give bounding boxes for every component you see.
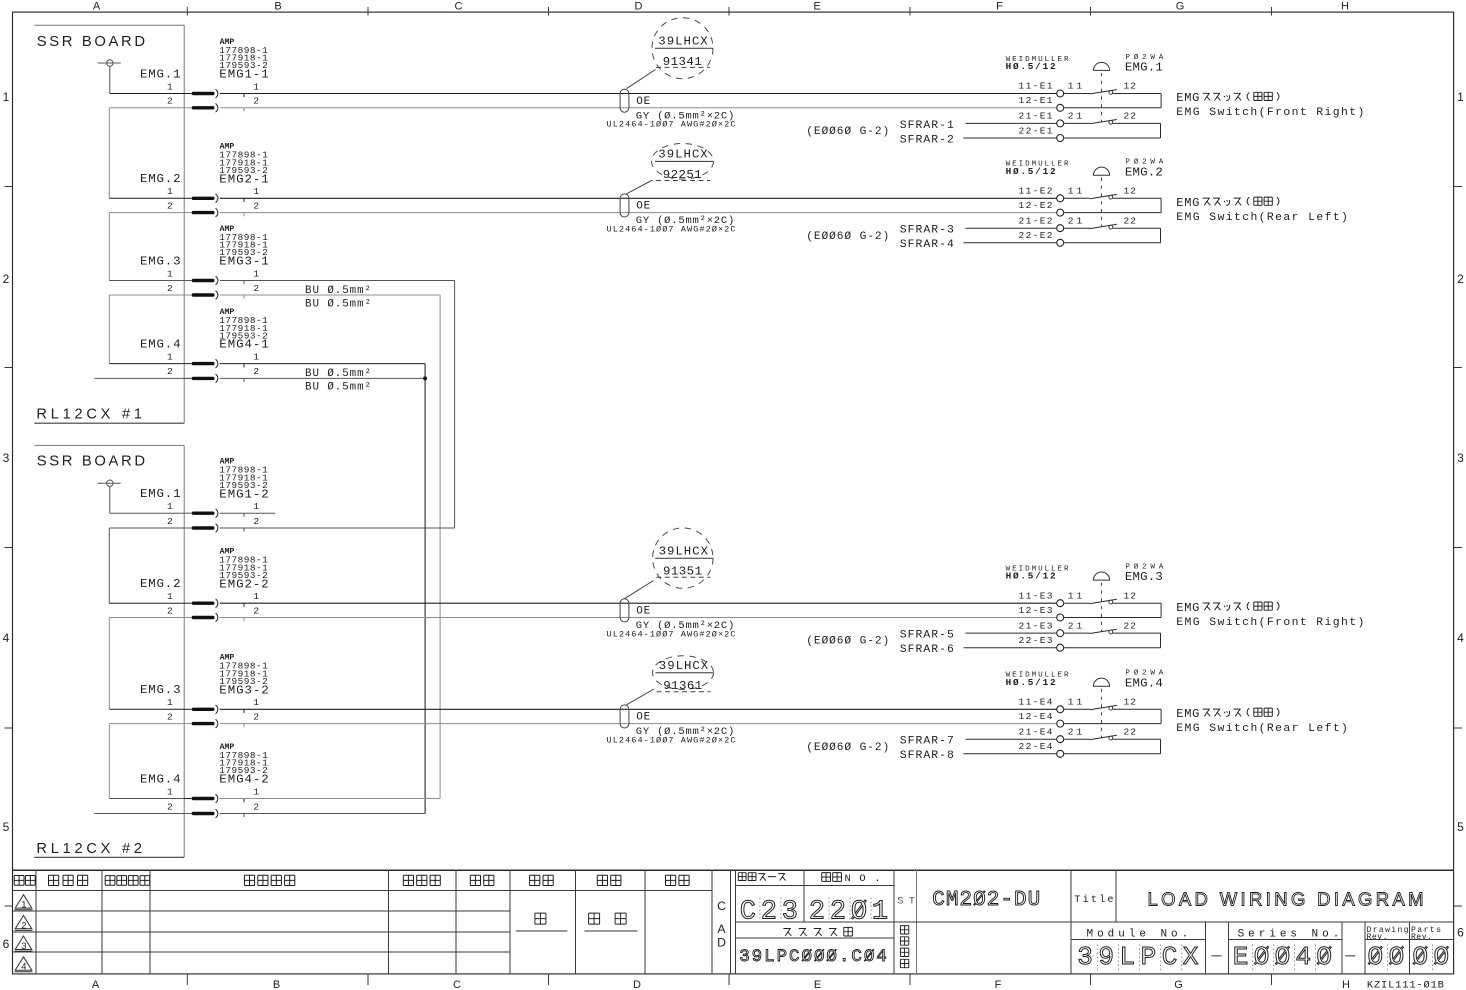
cable marker OE cable 39LHCX-91351 — [607, 599, 736, 640]
svg-text:12-E2: 12-E2 — [1019, 200, 1053, 211]
svg-text:BU Ø.5mm²: BU Ø.5mm² — [305, 298, 371, 310]
svg-text:6: 6 — [1457, 926, 1464, 940]
SSR BOARD #1 outline (RL12CX #1) — [34, 25, 184, 423]
svg-text:C: C — [455, 1, 463, 13]
svg-text:SFRAR-8: SFRAR-8 — [900, 750, 954, 762]
svg-text:F: F — [996, 1, 1003, 13]
svg-text:D: D — [635, 1, 643, 13]
connector EMG3-1 (AMP 177898-1/177918-1/179593-2) — [167, 225, 269, 300]
svg-text:2: 2 — [253, 801, 259, 812]
wire EMG1-2 pin2 to vertical bus — [220, 527, 455, 529]
net labels SFRAR-3/SFRAR-4 with (E0060 G-2) reference — [806, 225, 954, 252]
balloon cable id 39LHCX 91341 — [627, 18, 714, 89]
board EMG position labels — [140, 67, 181, 786]
svg-text:2: 2 — [167, 200, 173, 211]
svg-text:LOAD WIRING DIAGRAM: LOAD WIRING DIAGRAM — [1148, 888, 1424, 909]
wire EMG1-2 pin1 stub — [220, 512, 275, 514]
svg-text:1: 1 — [21, 900, 26, 911]
cable marker OE cable 39LHCX-91341 — [607, 89, 736, 130]
svg-text:21-E1: 21-E1 — [1019, 111, 1053, 122]
switch EMG.1 description labels — [1176, 91, 1364, 119]
svg-text:SFRAR-4: SFRAR-4 — [900, 239, 954, 251]
svg-text:11-E2: 11-E2 — [1019, 186, 1053, 197]
svg-text:39LHCX: 39LHCX — [659, 545, 709, 559]
CAD vertical label — [717, 899, 726, 950]
svg-text:4: 4 — [21, 962, 26, 973]
svg-text:Rev.: Rev. — [1367, 933, 1388, 942]
wire EMG1-1 pin1 to terminal 11-E1 — [220, 93, 1057, 95]
grid column letters bottom — [92, 979, 1350, 990]
svg-text:SFRAR-7: SFRAR-7 — [900, 736, 954, 748]
svg-text:OE: OE — [636, 201, 650, 213]
svg-text:2: 2 — [809, 897, 825, 927]
department code C23 / control no 2201 — [740, 897, 888, 927]
svg-text:BU Ø.5mm²: BU Ø.5mm² — [305, 285, 371, 297]
wire EMG4-2 pin1 to vertical bus — [220, 798, 440, 800]
svg-text:22: 22 — [1124, 620, 1137, 631]
balloon cable id 39LHCX 91351 — [625, 528, 714, 599]
svg-text:5: 5 — [3, 820, 10, 834]
svg-text:1: 1 — [253, 697, 259, 708]
net labels SFRAR-5/SFRAR-6 with (E0060 G-2) reference — [806, 630, 954, 657]
svg-text:21-E3: 21-E3 — [1019, 620, 1053, 631]
svg-text:H: H — [1341, 1, 1349, 13]
svg-text:A: A — [93, 1, 101, 13]
svg-text:EMG.3: EMG.3 — [1125, 570, 1163, 584]
svg-text:22: 22 — [1124, 726, 1137, 737]
svg-text:UL2464-1ØØ7 AWG#2Ø×2C: UL2464-1ØØ7 AWG#2Ø×2C — [607, 120, 736, 130]
wire EMG3-1 pin2 down to EMG4-2 pin1 (BU 0.5mm2) — [220, 295, 440, 799]
svg-text:3: 3 — [1457, 451, 1464, 465]
svg-text:1: 1 — [167, 501, 173, 512]
svg-text:2: 2 — [167, 801, 173, 812]
svg-text:2: 2 — [253, 283, 259, 294]
svg-text:12: 12 — [1124, 590, 1137, 601]
svg-text:Ø: Ø — [1368, 942, 1384, 972]
svg-text:(EØØ6Ø G-2): (EØØ6Ø G-2) — [806, 742, 889, 754]
svg-text:2: 2 — [21, 920, 26, 931]
svg-text:3: 3 — [21, 941, 26, 952]
revision table headers (fugo/nengappi/kaitei...) — [14, 875, 689, 885]
svg-text:1: 1 — [167, 591, 173, 602]
emergency stop switch EMG.1 (P02WA) terminals E1 — [964, 53, 1164, 142]
svg-text:EMG.4: EMG.4 — [140, 337, 181, 351]
svg-text:2: 2 — [253, 200, 259, 211]
svg-text:2: 2 — [167, 711, 173, 722]
svg-text:L: L — [1120, 942, 1136, 972]
pushbutton common symbol board #2 — [98, 480, 121, 513]
svg-text:(EØØ6Ø G-2): (EØØ6Ø G-2) — [806, 231, 889, 243]
svg-text:1: 1 — [253, 786, 259, 797]
switch EMG.4 description labels — [1176, 707, 1348, 735]
parts rev 00 — [1412, 942, 1449, 972]
svg-text:E: E — [813, 1, 820, 13]
svg-text:2: 2 — [167, 283, 173, 294]
emergency stop switch EMG.3 (P02WA) terminals E3 — [964, 563, 1164, 652]
svg-text:1: 1 — [167, 186, 173, 197]
svg-text:91341: 91341 — [663, 55, 702, 69]
svg-text:21-E4: 21-E4 — [1019, 726, 1053, 737]
svg-text:1: 1 — [253, 186, 259, 197]
svg-text:11-E4: 11-E4 — [1019, 697, 1053, 708]
svg-text:SSR BOARD: SSR BOARD — [37, 34, 145, 50]
svg-text:11-E3: 11-E3 — [1019, 590, 1053, 601]
svg-text:2: 2 — [167, 516, 173, 527]
svg-text:B: B — [273, 979, 280, 990]
svg-text:SSR BOARD: SSR BOARD — [37, 454, 145, 470]
svg-text:2: 2 — [253, 366, 259, 377]
balloon cable id 39LHCX 91361 — [627, 656, 714, 705]
svg-text:OE: OE — [636, 712, 650, 724]
svg-text:2: 2 — [167, 605, 173, 616]
net labels SFRAR-7/SFRAR-8 with (E0060 G-2) reference — [806, 736, 954, 763]
svg-text:X: X — [1183, 942, 1199, 972]
svg-text:EMG.1: EMG.1 — [1125, 61, 1163, 75]
svg-text:3: 3 — [1077, 942, 1093, 972]
grid row numbers right — [1457, 90, 1464, 940]
svg-text:EMG: EMG — [1176, 707, 1199, 721]
svg-text:UL2464-1ØØ7 AWG#2Ø×2C: UL2464-1ØØ7 AWG#2Ø×2C — [607, 224, 736, 234]
svg-text:H: H — [1342, 979, 1350, 990]
svg-text:EMG4-2: EMG4-2 — [219, 773, 268, 787]
svg-text:4: 4 — [3, 631, 10, 645]
svg-text:1: 1 — [167, 351, 173, 362]
svg-text:EMG1-1: EMG1-1 — [219, 68, 268, 82]
svg-text:1: 1 — [167, 786, 173, 797]
svg-text:EMG: EMG — [1176, 196, 1199, 210]
svg-text:22-E4: 22-E4 — [1019, 741, 1053, 752]
svg-text:EMG Switch(Rear Left): EMG Switch(Rear Left) — [1176, 212, 1348, 224]
svg-text:91351: 91351 — [663, 565, 702, 579]
emergency stop switch EMG.4 (P02WA) terminals E4 — [964, 669, 1164, 758]
svg-text:(EØØ6Ø G-2): (EØØ6Ø G-2) — [806, 636, 889, 648]
svg-text:22-E1: 22-E1 — [1019, 125, 1053, 136]
connector EMG3-2 (AMP 177898-1/177918-1/179593-2) — [167, 654, 269, 728]
wire size labels BU 0.5mm2 (EMG3-1) — [305, 285, 371, 310]
svg-text:BU Ø.5mm²: BU Ø.5mm² — [305, 368, 371, 380]
svg-text:39LHCX: 39LHCX — [658, 148, 708, 162]
svg-text:EMG.2: EMG.2 — [140, 172, 181, 186]
svg-text:SFRAR-1: SFRAR-1 — [900, 120, 954, 132]
module number 39LPCX — [1077, 942, 1221, 972]
svg-text:1: 1 — [253, 81, 259, 92]
svg-text:SFRAR-6: SFRAR-6 — [900, 644, 954, 656]
switch EMG.3 description labels — [1176, 601, 1364, 629]
svg-text:1: 1 — [167, 268, 173, 279]
wire EMG3-2 pin1 to terminal 11-E4 — [220, 708, 1057, 710]
svg-text:2: 2 — [3, 272, 10, 286]
svg-text:E: E — [1233, 942, 1249, 972]
svg-text:22: 22 — [1124, 215, 1137, 226]
svg-text:C: C — [717, 899, 726, 913]
designer name Tsutsumi — [516, 913, 568, 931]
svg-text:EMG.2: EMG.2 — [1125, 165, 1163, 179]
svg-text:D: D — [717, 936, 726, 950]
svg-text:2: 2 — [253, 516, 259, 527]
svg-text:Ø: Ø — [1389, 942, 1405, 972]
revision triangles 1-4 — [15, 895, 33, 973]
svg-text:G: G — [1174, 979, 1183, 990]
connector EMG4-2 (AMP 177898-1/177918-1/179593-2) — [167, 743, 269, 818]
svg-text:RL12CX #1: RL12CX #1 — [36, 406, 142, 422]
board #2 internal chain links pin2-to-pin1 — [109, 528, 184, 603]
svg-text:1: 1 — [1457, 90, 1464, 104]
svg-text:SFRAR-5: SFRAR-5 — [900, 630, 954, 642]
svg-text:91361: 91361 — [663, 679, 702, 693]
svg-text:EMG.2: EMG.2 — [140, 577, 181, 591]
net labels SFRAR-1/SFRAR-2 with (E0060 G-2) reference — [806, 120, 954, 147]
svg-text:12: 12 — [1124, 81, 1137, 92]
svg-text:22-E2: 22-E2 — [1019, 230, 1053, 241]
svg-text:EMG3-2: EMG3-2 — [219, 683, 268, 697]
svg-text:SFRAR-3: SFRAR-3 — [900, 225, 954, 237]
wire EMG2-1 pin1 to terminal 11-E2 — [220, 197, 1057, 199]
svg-text:Ø: Ø — [851, 897, 867, 927]
svg-text:EMG Switch(Rear Left): EMG Switch(Rear Left) — [1176, 723, 1348, 735]
svg-text:EMG: EMG — [1176, 601, 1199, 615]
wire EMG2-2 pin2 to terminal 12-E3 — [220, 617, 1057, 619]
svg-text:UL2464-1ØØ7 AWG#2Ø×2C: UL2464-1ØØ7 AWG#2Ø×2C — [607, 735, 736, 745]
cable marker OE cable 39LHCX-92251 — [607, 194, 736, 235]
svg-text:2: 2 — [830, 897, 846, 927]
svg-text:EMG Switch(Front Right): EMG Switch(Front Right) — [1176, 617, 1364, 629]
wire EMG3-1 pin1 down to EMG1-2 pin2 (BU 0.5mm2) — [220, 281, 455, 529]
svg-text:EMG4-1: EMG4-1 — [219, 338, 268, 352]
svg-text:C: C — [1162, 942, 1178, 972]
svg-text:2: 2 — [253, 96, 259, 107]
pushbutton common symbol board #1 — [98, 60, 121, 94]
balloon cable id 39LHCX 92251 — [627, 144, 714, 194]
switch EMG.2 description labels — [1176, 196, 1348, 224]
title block table lines — [13, 870, 1454, 974]
wire EMG4-1 pin2 to junction — [94, 377, 425, 379]
svg-text:G: G — [1176, 1, 1185, 13]
svg-text:1: 1 — [253, 501, 259, 512]
svg-text:P: P — [1141, 942, 1157, 972]
bukacode / kanri no. headers — [738, 873, 880, 886]
board #1 internal chain links pin2-to-pin1 — [109, 108, 184, 199]
svg-text:Ø: Ø — [1412, 942, 1428, 972]
svg-text:EMG2-1: EMG2-1 — [219, 172, 268, 186]
svg-text:6: 6 — [3, 937, 10, 951]
svg-text:B: B — [274, 1, 281, 13]
svg-text:Ø: Ø — [1254, 942, 1270, 972]
svg-text:22: 22 — [1124, 111, 1137, 122]
Parts Rev. header — [1411, 926, 1441, 942]
wire EMG1-1 pin2 to terminal 12-E1 — [220, 107, 1057, 109]
svg-text:D: D — [633, 979, 641, 990]
svg-text:Ø: Ø — [1275, 942, 1291, 972]
svg-text:4: 4 — [1457, 631, 1464, 645]
svg-text:2: 2 — [253, 605, 259, 616]
cable marker OE cable 39LHCX-91361 — [607, 705, 736, 746]
svg-text:KZIL111-Ø1B: KZIL111-Ø1B — [1367, 980, 1444, 990]
svg-text:EMG1-2: EMG1-2 — [219, 487, 268, 501]
SSR BOARD #2 outline (RL12CX #2) — [34, 445, 184, 857]
svg-text:OE: OE — [636, 606, 650, 618]
svg-text:E: E — [814, 979, 821, 990]
svg-text:BU Ø.5mm²: BU Ø.5mm² — [305, 381, 371, 393]
drawing rev 00 — [1368, 942, 1405, 972]
svg-text:(EØØ6Ø G-2): (EØØ6Ø G-2) — [806, 126, 889, 138]
svg-text:CM2Ø2-DU: CM2Ø2-DU — [932, 889, 1040, 912]
svg-text:1: 1 — [167, 697, 173, 708]
svg-text:12: 12 — [1124, 186, 1137, 197]
emergency stop switch EMG.2 (P02WA) terminals E2 — [964, 158, 1164, 247]
svg-text:2: 2 — [1457, 272, 1464, 286]
wire EMG4-1 pin1 down to EMG4-2 pin2 — [220, 364, 425, 814]
connector EMG2-2 (AMP 177898-1/177918-1/179593-2) — [167, 548, 269, 622]
svg-text:UL2464-1ØØ7 AWG#2Ø×2C: UL2464-1ØØ7 AWG#2Ø×2C — [607, 629, 736, 639]
svg-text:F: F — [995, 979, 1002, 990]
svg-text:1: 1 — [167, 81, 173, 92]
svg-text:21-E2: 21-E2 — [1019, 215, 1053, 226]
svg-text:1: 1 — [253, 268, 259, 279]
grid row numbers left — [3, 90, 10, 951]
svg-text:NO.: NO. — [845, 873, 881, 885]
svg-text:9: 9 — [1098, 942, 1114, 972]
svg-text:Title: Title — [1074, 894, 1113, 906]
svg-text:EMG.1: EMG.1 — [140, 487, 181, 501]
koji-kiban vertical label — [900, 926, 908, 968]
Drawing Rev. header — [1367, 926, 1409, 942]
svg-text:Rev.: Rev. — [1411, 933, 1432, 942]
svg-text:5: 5 — [1457, 820, 1464, 834]
svg-text:EMG Switch(Front Right): EMG Switch(Front Right) — [1176, 107, 1364, 119]
connector EMG4-1 (AMP 177898-1/177918-1/179593-2) — [167, 308, 269, 383]
svg-text:A: A — [717, 922, 726, 936]
svg-text:1: 1 — [253, 591, 259, 602]
grid column letters top — [93, 1, 1349, 13]
svg-text:39LPCØØØ.CØ4: 39LPCØØØ.CØ4 — [739, 947, 887, 967]
svg-text:RL12CX #2: RL12CX #2 — [36, 841, 142, 857]
svg-text:2: 2 — [167, 96, 173, 107]
svg-text:C: C — [453, 979, 461, 990]
svg-text:12-E1: 12-E1 — [1019, 95, 1053, 106]
wire EMG4-2 pin2 stub and to vertical bus — [94, 813, 425, 815]
svg-text:39LHCX: 39LHCX — [659, 659, 709, 673]
checker name Hideshima — [585, 913, 638, 931]
svg-text:4: 4 — [1296, 942, 1312, 972]
svg-text:39LHCX: 39LHCX — [658, 35, 708, 49]
svg-text:EMG.1: EMG.1 — [140, 67, 181, 81]
svg-text:12: 12 — [1124, 697, 1137, 708]
svg-text:2: 2 — [761, 897, 777, 927]
svg-text:2: 2 — [253, 711, 259, 722]
svg-text:11-E1: 11-E1 — [1019, 81, 1053, 92]
svg-text:A: A — [92, 979, 100, 990]
connector EMG2-1 (AMP 177898-1/177918-1/179593-2) — [167, 143, 269, 217]
svg-text:22-E3: 22-E3 — [1019, 635, 1053, 646]
svg-text:92251: 92251 — [663, 168, 702, 182]
svg-text:1: 1 — [253, 351, 259, 362]
svg-text:1: 1 — [3, 90, 10, 104]
svg-text:1: 1 — [872, 897, 888, 927]
svg-text:EMG.3: EMG.3 — [140, 683, 181, 697]
svg-text:EMG.3: EMG.3 — [140, 254, 181, 268]
series number E0040 — [1233, 942, 1356, 972]
wire EMG2-2 pin1 to terminal 11-E3 — [220, 602, 1057, 604]
svg-text:12-E4: 12-E4 — [1019, 711, 1053, 722]
svg-text:EMG3-1: EMG3-1 — [219, 255, 268, 269]
svg-text:EMG2-2: EMG2-2 — [219, 577, 268, 591]
svg-text:2: 2 — [167, 366, 173, 377]
connector EMG1-1 (AMP 177898-1/177918-1/179593-2) — [167, 38, 269, 112]
file name header (fairu-mei) — [783, 927, 852, 936]
junction dot EMG4-1 pin2 / vertical bus — [423, 376, 427, 380]
wire EMG2-1 pin2 to terminal 12-E2 — [220, 212, 1057, 214]
connector EMG1-2 (AMP 177898-1/177918-1/179593-2) — [167, 458, 269, 533]
svg-text:EMG: EMG — [1176, 91, 1199, 105]
svg-text:EMG.4: EMG.4 — [140, 772, 181, 786]
svg-text:OE: OE — [636, 96, 650, 108]
svg-text:12-E3: 12-E3 — [1019, 605, 1053, 616]
wire size labels BU 0.5mm2 (EMG4-1) — [305, 368, 371, 393]
wire EMG3-2 pin2 to terminal 12-E4 — [220, 723, 1057, 725]
svg-text:Ø: Ø — [1434, 942, 1450, 972]
svg-text:3: 3 — [3, 451, 10, 465]
svg-text:C: C — [740, 897, 756, 927]
svg-text:EMG.4: EMG.4 — [1125, 676, 1163, 690]
svg-text:Ø: Ø — [1316, 942, 1332, 972]
svg-text:SFRAR-2: SFRAR-2 — [900, 134, 954, 146]
svg-text:3: 3 — [782, 897, 798, 927]
